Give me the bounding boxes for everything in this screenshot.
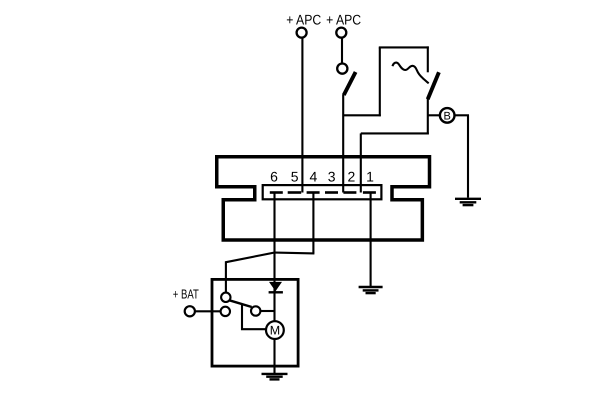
svg-text:+ BAT: + BAT — [173, 287, 199, 302]
switch S2 blade — [428, 72, 439, 99]
contact circle upper inside box — [221, 293, 230, 302]
wire box top — [379, 46, 429, 48]
svg-text:3: 3 — [328, 168, 336, 184]
wire down to pin 1 — [360, 133, 362, 192]
terminal +BAT — [185, 306, 195, 316]
wire +APC left to pin 5/4 — [301, 38, 303, 193]
diode D1 triangle — [269, 282, 282, 291]
contact circle BAT inside box — [221, 307, 230, 316]
terminal +APC right — [336, 28, 346, 38]
connector pin strip box — [263, 185, 382, 199]
wire motor to ground — [273, 339, 275, 374]
wire box bottom to pin 1 — [361, 132, 429, 134]
svg-text:M: M — [270, 324, 280, 338]
ground middle — [359, 287, 383, 293]
wire +APC right to switch contact — [341, 38, 343, 64]
svg-text:+ APC: + APC — [286, 11, 321, 27]
wire down to right ground — [467, 115, 469, 197]
relay box outline — [212, 279, 298, 366]
contact circle middle — [251, 306, 260, 315]
wire switch S2 upper contact — [427, 46, 429, 72]
pin 6 contact dash — [270, 191, 283, 194]
svg-text:+ APC: + APC — [326, 11, 361, 27]
motor M circle — [266, 321, 284, 339]
pin 3 contact dash — [325, 191, 338, 194]
svg-text:2: 2 — [348, 168, 356, 184]
pin 4 contact dash — [307, 191, 320, 194]
svg-text:6: 6 — [270, 168, 278, 184]
svg-text:1: 1 — [366, 168, 374, 184]
ground right — [455, 199, 481, 205]
wire blade tap to motor — [242, 304, 266, 329]
wire +BAT to box — [195, 310, 221, 312]
wire B to ground — [455, 114, 469, 116]
wire to terminal B — [428, 114, 440, 116]
wire diagonal junction to relay box — [226, 252, 275, 262]
wire box left vertical — [379, 47, 381, 116]
svg-text:5: 5 — [291, 168, 299, 184]
wire pin 4 horizontal to junction — [275, 252, 314, 255]
ground bottom — [262, 374, 288, 380]
diode D1 cathode bar — [269, 291, 283, 293]
thermal wavy element — [393, 63, 429, 84]
wire switch S2 lower — [427, 99, 429, 135]
wire branch to thermal switch box — [343, 114, 381, 116]
svg-text:B: B — [444, 110, 451, 122]
connector housing outline — [217, 157, 430, 240]
pin 1 contact dash — [363, 191, 376, 194]
wire pin 1 down to ground — [370, 193, 372, 287]
relay switch blade — [229, 300, 251, 307]
pin 5 contact dash — [288, 191, 302, 194]
wire pin 6 down through diode to motor — [273, 193, 275, 322]
terminal +APC left — [297, 28, 307, 38]
wire pin 4 down — [312, 193, 314, 253]
switch S1 fixed contact — [337, 64, 347, 74]
wire down into relay box — [225, 261, 227, 293]
svg-text:4: 4 — [310, 168, 318, 184]
pin 2 contact dash — [343, 191, 356, 194]
wire switch S1 to pin 2 — [342, 95, 344, 193]
switch S1 blade — [344, 72, 356, 95]
wire middle contact to motor line — [260, 310, 274, 312]
terminal B circle — [440, 108, 455, 123]
